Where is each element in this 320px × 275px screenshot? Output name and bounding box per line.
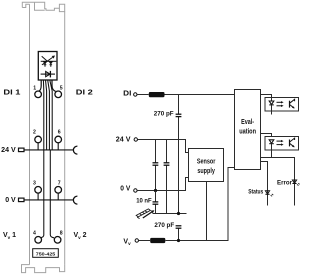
optocoupler 2 LED: [269, 140, 274, 158]
DI input filter bead: [149, 92, 165, 97]
evaluation block: [235, 90, 261, 170]
wire bundle row1-row2: [43, 80, 52, 150]
svg-text:DI 1: DI 1: [3, 90, 20, 97]
750-425 type label box: [33, 249, 59, 258]
svg-text:1: 1: [33, 85, 36, 91]
rail contact symbol (DIN rail): [136, 209, 150, 219]
sensor supply block: [189, 149, 224, 182]
input circuit box (diode network): [38, 52, 57, 81]
optocoupler 1 phototransistor: [290, 99, 295, 108]
svg-text:supply: supply: [197, 168, 215, 175]
optocoupler 2 arrows: [277, 140, 284, 146]
sensor supply output wire: [206, 182, 208, 241]
module housing top cap outline: [22, 2, 64, 11]
DI input circle: [134, 93, 137, 96]
wire pin5 from box to terminal 5: [52, 80, 56, 91]
rail contact arrow: [143, 210, 155, 218]
0V rail to sensor supply: [137, 178, 188, 191]
svg-text:24 V: 24 V: [1, 147, 16, 154]
svg-text:4: 4: [33, 231, 36, 237]
stem terminal 2 to 24V rail: [37, 143, 39, 150]
wire evaluation to status branch: [261, 162, 268, 206]
wire evaluation to error branch: [261, 158, 295, 206]
wire long pair to terminals 4 and 8: [41, 150, 44, 238]
DI branch vertical with capacitors: [178, 95, 180, 241]
svg-text:750-425: 750-425: [36, 251, 56, 257]
svg-text:Vv 1: Vv 1: [3, 232, 16, 240]
terminal 6: [55, 136, 62, 143]
error LED: [292, 180, 299, 186]
shield rail: [153, 213, 187, 215]
optocoupler 2 box: [265, 137, 299, 151]
Vv input circle: [135, 239, 138, 242]
svg-text:3: 3: [33, 181, 36, 187]
DI wire circle to bead: [137, 94, 149, 96]
svg-text:270 pF: 270 pF: [154, 222, 174, 229]
node dot 0V/10nF: [154, 189, 157, 192]
optocoupler 2 phototransistor: [290, 138, 295, 147]
capacitor 270 pF top: [176, 114, 182, 116]
24V terminal square: [19, 148, 25, 152]
stem terminal 6 to 24V rail: [57, 143, 59, 150]
terminal 4: [35, 237, 42, 244]
stem terminal 7 to 0V rail: [57, 193, 59, 200]
terminal 1: [35, 91, 42, 98]
optocoupler 1 box: [265, 98, 299, 112]
terminal 2: [35, 136, 42, 143]
optocoupler 1 arrows: [277, 101, 284, 107]
24V rail to sensor supply: [138, 140, 189, 153]
svg-text:2: 2: [33, 130, 36, 136]
0V clamp hook: [73, 196, 77, 204]
svg-text:24 V: 24 V: [116, 136, 131, 143]
svg-text:uation: uation: [239, 129, 256, 136]
module housing left edge: [29, 4, 31, 264]
24V input circle: [134, 138, 137, 141]
node dot Vv/270pF: [177, 239, 180, 242]
terminal 8: [54, 237, 61, 244]
Vv filter bead: [150, 238, 165, 243]
module housing bottom foot outline: [22, 265, 65, 273]
svg-text:DI 2: DI 2: [76, 90, 93, 97]
terminal 5: [55, 91, 62, 98]
capacitor 270 pF bottom: [176, 226, 182, 228]
svg-text:Vv 2: Vv 2: [74, 232, 87, 240]
terminal 7: [55, 187, 62, 194]
24V rail wire: [24, 149, 73, 151]
svg-text:Error: Error: [277, 179, 292, 186]
status LED pair symbol inside box: [41, 56, 57, 67]
svg-text:0 V: 0 V: [5, 197, 16, 204]
Vv wire circle to bead: [139, 240, 151, 242]
diode symbol inside box: [41, 71, 55, 78]
svg-text:Sensor: Sensor: [197, 158, 216, 165]
svg-text:10 nF: 10 nF: [136, 197, 152, 204]
svg-text:8: 8: [60, 231, 63, 237]
DI wire bead to evaluation: [165, 94, 235, 96]
module housing right edge: [64, 12, 66, 265]
wire pin1 from box to terminal 1: [39, 80, 42, 91]
svg-text:270 pF: 270 pF: [154, 111, 174, 118]
svg-text:DI: DI: [123, 91, 131, 98]
branch capacitor a (24V to 0V): [155, 140, 157, 191]
0V terminal square: [19, 198, 25, 202]
optocoupler 1 LED: [269, 98, 274, 115]
capacitor 10 nF: [155, 191, 157, 214]
svg-text:5: 5: [60, 85, 63, 91]
svg-text:Status: Status: [248, 189, 263, 196]
svg-text:0 V: 0 V: [120, 186, 130, 193]
0V input circle: [134, 189, 137, 192]
wire evaluation to optocoupler 2: [261, 134, 272, 137]
Vv rail: [165, 168, 234, 241]
wire evaluation to optocoupler 1: [261, 95, 272, 98]
stem terminal 3 to 0V rail: [37, 193, 39, 200]
24V clamp hook: [73, 146, 77, 154]
svg-text:Eval-: Eval-: [241, 119, 255, 126]
terminal 3: [35, 187, 42, 194]
branch capacitor b (24V to shield): [166, 140, 168, 214]
status LED: [265, 191, 273, 197]
svg-text:6: 6: [58, 130, 61, 136]
0V rail wire: [24, 199, 73, 201]
svg-text:7: 7: [58, 181, 61, 187]
node dot shield/DI branch: [177, 212, 180, 215]
